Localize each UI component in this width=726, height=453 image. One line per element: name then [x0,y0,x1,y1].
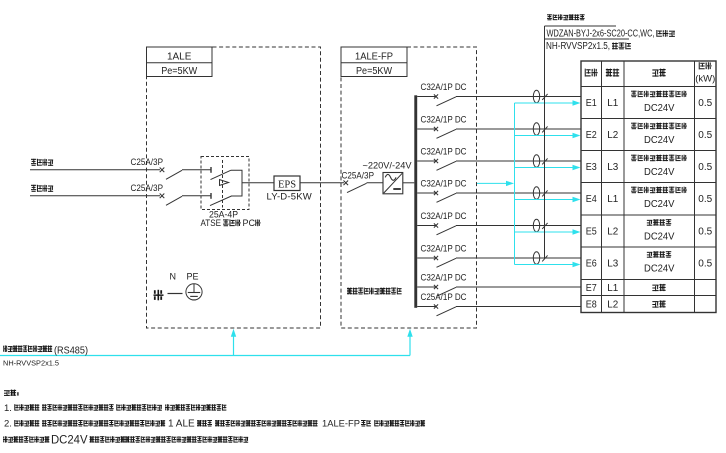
svg-text:ATSE: ATSE [201,218,222,228]
cable loop symbol on circuit E4 [533,187,539,200]
svg-text:1.: 1. [4,403,12,414]
svg-text:E1: E1 [586,97,597,109]
svg-text:C25A/3P: C25A/3P [131,157,164,167]
note 1: system composition [4,403,226,414]
ATSE input terminal 1 [210,167,212,173]
note: wiring spec title (Chinese) [547,14,585,20]
busbar: DC distribution bus [414,95,417,307]
table row circuit E3 [586,155,713,178]
svg-text:PC: PC [243,218,256,228]
breaker QF2 C25A/3P (standby supply) [131,183,212,205]
wire: circuit E4 to load schedule [456,192,581,194]
ATSE output body (open rectangle) [231,170,242,196]
table: load schedule grid [581,61,716,313]
breaker QF10 C32A/1P DC (circuit E7) [417,273,467,297]
ATSE moving contact arm 2 [210,196,232,206]
svg-text:0.5: 0.5 [698,162,712,173]
table row circuit E2 [586,123,713,146]
net label: normal supply (Chinese) [31,159,53,166]
cable loop symbol on circuit E3 [533,155,539,168]
signal arrow to circuit E4 (cyan) [515,197,581,202]
svg-text:C32A/1P DC: C32A/1P DC [421,115,467,125]
cable loop symbol on circuit E6 [533,252,539,265]
svg-text:L2: L2 [607,225,618,237]
table header: number / phase / purpose / capacity(kW) [585,62,716,84]
svg-text:L1: L1 [607,97,618,109]
cable loop symbol on circuit E2 [533,123,539,136]
svg-text:(RS485): (RS485) [54,345,88,357]
signal branch arrow into 1ALE (cyan) [231,329,236,356]
label box 1ALE-FP / Pe=5KW [341,47,407,77]
svg-text:L2: L2 [607,298,618,310]
wire: standby supply feeder [30,195,160,197]
node N (neutral bar) [168,271,183,293]
svg-text:DC24V: DC24V [644,263,675,275]
wire: circuit E1 to load schedule [456,96,581,98]
svg-text:WDZAN-BYJ-2x6-SC20-CC,WC,: WDZAN-BYJ-2x6-SC20-CC,WC, [547,28,655,39]
svg-text:DC24V: DC24V [51,434,88,446]
leader tick on circuit E3 [542,158,547,164]
svg-text:E5: E5 [586,225,597,237]
note heading (Chinese) [4,390,19,396]
svg-text:E4: E4 [586,193,597,205]
note: to control modules (Chinese) [347,288,402,295]
table row circuit E5 [586,219,713,242]
note 2: power supply mode (mentions 1ALE and 1ALE-FP) [4,419,425,430]
signal arrow to circuit E5 (cyan) [515,229,581,234]
svg-text:~220V/-24V: ~220V/-24V [363,160,412,170]
breaker QF6 C32A/1P DC (circuit E3) [417,147,467,171]
net label: emergency lighting controller signal line (RS485) [3,345,88,357]
svg-text:C32A/1P DC: C32A/1P DC [421,211,467,221]
wire: circuit E2 to load schedule [456,128,581,130]
svg-text:0.5: 0.5 [698,194,712,205]
cable loop symbol on circuit E5 [533,219,539,232]
value label 25A-4P [209,209,238,220]
leader line: cable specification callout [545,26,630,258]
svg-text:L1: L1 [607,282,618,294]
svg-text:1ALE-FP: 1ALE-FP [355,52,393,63]
svg-text:L3: L3 [607,258,618,270]
leader tick on circuit E5 [542,223,547,229]
svg-text:E3: E3 [586,161,597,173]
svg-text:DC24V: DC24V [644,166,675,178]
svg-text:E8: E8 [586,298,597,310]
svg-text:C32A/1P DC: C32A/1P DC [421,179,467,189]
svg-text:C32A/1P DC: C32A/1P DC [421,82,467,92]
signal arrow to circuit E1 (cyan) [515,100,581,105]
leader tick on circuit E4 [542,190,547,196]
breaker QF5 C32A/1P DC (circuit E2) [417,115,467,139]
enclosure 1ALE (emergency lighting central power box, dashed outline) [147,47,321,328]
wire: circuit E6 to load schedule [456,257,581,259]
ATSE moving contact arm 1 [211,170,232,179]
signal arrow to circuit E3 (cyan) [515,165,581,170]
svg-text:2.: 2. [4,419,12,430]
svg-text:0.5: 0.5 [698,98,712,109]
leader tick on circuit E1 [542,94,547,100]
cable loop symbol on circuit E1 [533,90,539,103]
svg-text:1 ALE: 1 ALE [168,419,195,430]
ground PE (protective earth symbol) [186,271,202,300]
signal arrow to circuit E6 (cyan) [515,262,581,267]
svg-text:L2: L2 [607,129,618,141]
svg-text:L3: L3 [607,161,618,173]
signal arrow to circuit E2 (cyan) [515,133,581,138]
svg-text:E7: E7 [586,282,597,294]
wire: EPS output to 1ALE-FP input breaker [300,182,344,184]
svg-text:LY-D-5KW: LY-D-5KW [267,191,312,202]
svg-text:NH-RVVSP2x1.5: NH-RVVSP2x1.5 [3,358,59,367]
table row circuit E1 [586,91,713,114]
AC/DC converter U2 ~220V/-24V [363,160,412,194]
terminal block symbol (Chinese glyph) [154,290,164,301]
svg-text:Pe=5KW: Pe=5KW [161,66,198,77]
breaker QF3 C25A/3P (1ALE-FP incoming) [342,171,384,193]
svg-text:0.5: 0.5 [698,259,712,270]
table row circuit E4 [586,187,713,210]
svg-text:0.5: 0.5 [698,226,712,237]
wire: normal supply feeder [30,169,160,171]
enclosure 1ALE-FP (distribution box, dashed outline) [341,47,477,328]
svg-text:1ALE-FP: 1ALE-FP [322,419,360,430]
note 3: DC24V safety voltage explanation [3,434,248,446]
svg-text:E2: E2 [586,129,597,141]
table row circuit E8 [586,298,666,310]
svg-text:E6: E6 [586,258,597,270]
svg-text:DC24V: DC24V [644,231,675,243]
svg-text:N: N [170,271,177,281]
signal bus vertical (cyan) [514,103,516,265]
wire: circuit E8 to load schedule [456,306,581,308]
leader tick on circuit E2 [542,126,547,132]
wire: circuit E3 to load schedule [456,160,581,162]
value label signal cable NH-RVVSP2x1.5 [546,41,631,52]
svg-text:C32A/1P DC: C32A/1P DC [421,244,467,254]
svg-text:DC24V: DC24V [644,102,675,114]
svg-text:Pe=5KW: Pe=5KW [356,66,393,77]
breaker QF8 C32A/1P DC (circuit E5) [417,211,467,235]
EPS unit U1 LY-D-5KW [267,176,312,202]
breaker QF4 C32A/1P DC (circuit E1) [417,82,467,106]
transfer switch ATSE 25A-4P (dashed outline) [201,157,249,210]
breaker QF1 C25A/3P (normal supply) [131,157,212,179]
svg-text:0.5: 0.5 [698,130,712,141]
svg-text:DC24V: DC24V [644,134,675,146]
ATSE input terminal 2 [210,193,212,199]
svg-text:NH-RVVSP2x1.5,: NH-RVVSP2x1.5, [546,41,610,52]
breaker QF7 C32A/1P DC (circuit E4) [417,179,467,203]
signal branch arrow into 1ALE-FP (cyan) [407,329,412,356]
value label NH-RVVSP2x1.5 (RS485 cable) [3,358,59,367]
svg-text:PE: PE [187,271,199,281]
net label: standby supply (Chinese) [31,185,53,192]
svg-text:C25A/3P: C25A/3P [342,171,375,181]
svg-text:DC24V: DC24V [644,198,675,210]
svg-text:C32A/1P DC: C32A/1P DC [421,147,467,157]
label box 1ALE / Pe=5KW [147,47,213,77]
svg-text:EPS: EPS [278,179,296,190]
ATSE actuator triangle [220,180,229,186]
svg-text:1ALE: 1ALE [167,52,192,63]
wire: circuit E7 to load schedule [456,286,581,288]
svg-text:C25A/3P: C25A/3P [131,183,164,193]
wire: converter output to DC busbar [403,182,415,184]
value label cable WDZAN-BYJ-2x6-SC20-CC,WC [547,28,675,39]
net RS485: controller signal line (cyan) [0,355,410,357]
wire: circuit E5 to load schedule [456,225,581,227]
signal arrow from 1ALE-FP to signal bus (cyan) [477,181,514,186]
breaker QF11 C25A/1P DC (circuit E8) [417,292,467,316]
wire: ATSE output to EPS [242,182,274,184]
svg-text:(kW): (kW) [695,74,715,85]
svg-text:C32A/1P DC: C32A/1P DC [421,273,467,283]
table row circuit E7 [586,282,666,294]
table row circuit E6 [586,251,713,274]
breaker QF9 C32A/1P DC (circuit E6) [417,244,467,268]
svg-text:C25A/1P DC: C25A/1P DC [421,292,467,302]
leader tick on circuit E6 [542,255,547,261]
svg-text:L1: L1 [607,193,618,205]
value label ATSE (type) PC class [201,218,261,228]
